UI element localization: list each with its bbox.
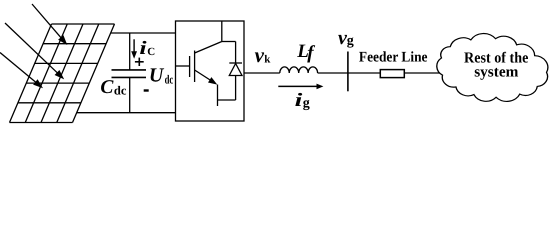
- current arrow iC: [131, 39, 137, 58]
- IGBT emitter lead: [217, 85, 219, 107]
- label Rest of the system: [464, 50, 528, 81]
- PV array panel grid: [10, 24, 115, 123]
- capacitor C_dc plates: [112, 70, 147, 78]
- IGBT gate bar: [189, 56, 191, 77]
- IGBT emitter arrowhead: [208, 77, 217, 85]
- label Lf: [296, 41, 315, 64]
- minus sign: [144, 89, 149, 91]
- diode triangle: [229, 64, 242, 76]
- wire top DC rail: [111, 32, 176, 34]
- cloud rest of the system: [437, 34, 548, 102]
- label iC: [139, 38, 155, 59]
- label vk: [255, 43, 272, 67]
- wire coil to bus: [318, 72, 381, 74]
- wire capacitor branch upper: [129, 33, 131, 70]
- svg-text:U: U: [149, 65, 165, 87]
- diode bottom lead: [235, 76, 237, 101]
- svg-text:dc: dc: [165, 72, 174, 86]
- plus sign: [135, 58, 144, 66]
- inductor Lf coil: [280, 67, 318, 73]
- inverter box U1: [176, 21, 245, 121]
- diode cathode bar: [229, 62, 242, 64]
- IGBT emitter slant: [195, 70, 214, 83]
- IGBT body bar: [194, 51, 196, 83]
- svg-text:dc: dc: [114, 84, 127, 98]
- link emitter to diode: [218, 99, 236, 101]
- label Cdc: [100, 77, 126, 98]
- svg-text:g: g: [303, 96, 310, 111]
- IGBT collector lead: [221, 21, 223, 42]
- bus bar node vg: [347, 52, 349, 92]
- wire bottom DC rail: [77, 112, 176, 114]
- label Udc: [149, 65, 174, 87]
- wire capacitor branch lower: [129, 77, 131, 112]
- svg-text:g: g: [347, 34, 354, 49]
- feeder line impedance box: [380, 70, 404, 78]
- link collector to diode: [222, 41, 236, 43]
- wire inverter output: [244, 72, 280, 74]
- svg-text:system: system: [474, 63, 518, 80]
- sun arrow 2: [5, 23, 64, 79]
- diode D1 top lead: [235, 42, 237, 64]
- sun arrow 1: [32, 4, 67, 45]
- current arrow ig: [278, 84, 323, 90]
- label ig: [295, 90, 310, 111]
- label vg: [338, 27, 354, 49]
- sun arrow 3: [0, 53, 43, 89]
- svg-text:v: v: [255, 43, 265, 67]
- IGBT collector slant: [195, 42, 222, 54]
- wire feeder to cloud: [404, 72, 442, 74]
- svg-text:C: C: [147, 46, 155, 58]
- svg-text:C: C: [100, 77, 114, 98]
- svg-text:k: k: [264, 54, 271, 66]
- svg-text:Feeder Line: Feeder Line: [359, 49, 428, 65]
- IGBT gate lead: [176, 65, 190, 67]
